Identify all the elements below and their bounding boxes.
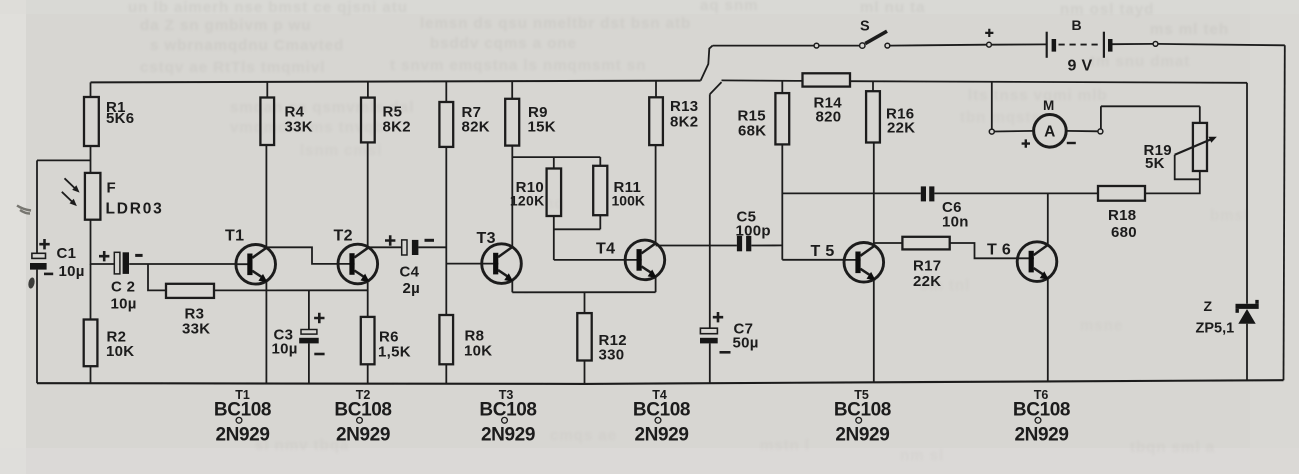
wire T2 collector to C4 bbox=[368, 246, 402, 248]
wire T1 collector to T2 base bbox=[266, 247, 338, 264]
svg-text:10µ: 10µ bbox=[272, 341, 298, 358]
wire T5 collector to R17 bbox=[874, 242, 903, 244]
svg-text:nm sl: nm sl bbox=[900, 447, 944, 464]
terminal battery minus bbox=[1153, 42, 1158, 47]
wire R13 top stub bbox=[655, 81, 657, 98]
svg-text:T4: T4 bbox=[596, 241, 615, 258]
wire T1 collector bbox=[265, 145, 267, 247]
transistor T5 bbox=[844, 242, 884, 282]
wire C3 to ground bbox=[308, 343, 310, 383]
wire R6 to ground bbox=[367, 364, 369, 383]
svg-text:BC108: BC108 bbox=[834, 400, 891, 421]
svg-text:ml nu ta: ml nu ta bbox=[860, 0, 926, 16]
capacitor C5 bbox=[737, 236, 742, 251]
svg-text:8K2: 8K2 bbox=[670, 114, 698, 131]
svg-text:2N929: 2N929 bbox=[1015, 425, 1069, 446]
resistor R14 bbox=[803, 73, 851, 86]
wire C7 to ground bbox=[709, 343, 711, 383]
battery dashed link bbox=[1059, 44, 1103, 46]
wire common emitter line T3 T4 bbox=[512, 291, 655, 293]
wire T5 collector bbox=[873, 143, 875, 246]
svg-text:2N929: 2N929 bbox=[216, 425, 270, 446]
svg-text:T3: T3 bbox=[477, 230, 496, 247]
wire T5 base to C6 bbox=[782, 192, 921, 194]
resistor R11 bbox=[593, 166, 607, 215]
wire R10 top stub bbox=[553, 157, 555, 168]
wire R1 to F bbox=[90, 146, 92, 173]
wire top rail right segment B bbox=[850, 81, 1247, 83]
wire ground rail bbox=[37, 380, 1284, 384]
wire R9 top stub bbox=[511, 81, 513, 99]
wire C5 to T5 base column bbox=[751, 244, 782, 246]
resistor R18 bbox=[1098, 186, 1145, 201]
resistor R3 bbox=[166, 284, 214, 298]
wire R10 bottom to T4 base bbox=[553, 216, 555, 260]
wire R15 bottom to T5 base bbox=[781, 144, 783, 259]
svg-text:tbqn sml a: tbqn sml a bbox=[1130, 439, 1215, 456]
wire right edge vertical bbox=[1284, 45, 1285, 380]
wire R18 to R19 bbox=[1145, 171, 1200, 193]
capacitor C1 bbox=[32, 253, 46, 258]
svg-text:msne: msne bbox=[1080, 317, 1123, 334]
svg-text:lemsn ds qsu nmeltbr dst bsn a: lemsn ds qsu nmeltbr dst bsn atb bbox=[420, 15, 691, 32]
svg-text:820: 820 bbox=[816, 109, 842, 126]
svg-text:C1: C1 bbox=[57, 245, 77, 262]
wire input node to C2 bbox=[91, 263, 115, 265]
svg-text:R17: R17 bbox=[913, 258, 941, 275]
svg-text:S: S bbox=[860, 19, 870, 35]
wire top supply rail left bbox=[91, 81, 701, 83]
svg-text:120K: 120K bbox=[510, 193, 545, 209]
zener diode Z bbox=[1236, 304, 1259, 309]
wire R11 top stub bbox=[599, 157, 601, 166]
wire switch to battery terminal bbox=[890, 44, 987, 47]
wire R12 stub bbox=[584, 292, 586, 313]
wire switch line left bbox=[713, 45, 815, 47]
wire zener to ground bbox=[1246, 324, 1248, 381]
wire T2 collector bbox=[367, 142, 369, 247]
wire C6 to R18 bbox=[934, 192, 1098, 194]
svg-text:10n: 10n bbox=[942, 214, 969, 231]
svg-text:680: 680 bbox=[1111, 224, 1137, 241]
wire R11 bottom stub bbox=[599, 215, 601, 229]
arrow 2 into F bbox=[62, 192, 74, 203]
wire to switch bbox=[819, 45, 860, 47]
svg-text:100p: 100p bbox=[736, 223, 771, 240]
capacitor C2 bbox=[114, 252, 120, 274]
wire T2 emitter to R6 bbox=[367, 281, 369, 317]
wire R4 top stub bbox=[266, 82, 268, 97]
svg-text:mstn l: mstn l bbox=[760, 437, 810, 454]
wire T4 collector bbox=[655, 145, 657, 243]
resistor R10 bbox=[547, 169, 562, 217]
wire R3 tap bbox=[148, 264, 166, 290]
svg-text:bmsl: bmsl bbox=[1210, 207, 1249, 224]
svg-text:BC108: BC108 bbox=[334, 400, 391, 421]
wire T3 base lead-in bbox=[446, 263, 482, 265]
resistor R16 bbox=[866, 91, 880, 142]
svg-text:BC108: BC108 bbox=[479, 400, 536, 421]
svg-text:C 2: C 2 bbox=[111, 279, 135, 296]
wire C7 column bbox=[709, 94, 711, 328]
wire R10 R11 top line bbox=[512, 156, 600, 158]
resistor R6 bbox=[361, 317, 375, 364]
wire R7 top stub bbox=[445, 81, 447, 102]
resistor R7 bbox=[439, 102, 453, 147]
switch S contact left bbox=[860, 43, 865, 48]
wire T3 emitter bbox=[511, 281, 513, 292]
wire feedback line R3 to T2 emitter bbox=[214, 289, 368, 291]
label T4 type bbox=[633, 388, 690, 446]
wire C2 to T1 base bbox=[129, 263, 236, 265]
svg-text:LDR03: LDR03 bbox=[106, 201, 164, 218]
svg-text:10K: 10K bbox=[464, 343, 492, 360]
svg-text:bsddv cqms a one: bsddv cqms a one bbox=[430, 35, 577, 52]
svg-text:aq snm: aq snm bbox=[700, 0, 759, 14]
svg-text:T 6: T 6 bbox=[987, 242, 1011, 259]
svg-text:T1: T1 bbox=[225, 228, 244, 245]
transistor T4 bbox=[625, 240, 665, 280]
svg-text:9 V: 9 V bbox=[1068, 58, 1093, 75]
svg-text:cmqs ae: cmqs ae bbox=[550, 427, 617, 444]
svg-text:F: F bbox=[107, 180, 116, 197]
label T2 type bbox=[334, 388, 391, 446]
wire R1 top stub bbox=[90, 82, 92, 97]
wire battery to terminal bbox=[1113, 43, 1154, 45]
transistor T2 bbox=[338, 244, 378, 284]
svg-text:B: B bbox=[1072, 17, 1082, 33]
label T3 type bbox=[479, 388, 536, 446]
svg-text:A: A bbox=[1044, 123, 1056, 140]
wire rail to meter bbox=[991, 81, 993, 129]
wire T4 base line bbox=[554, 259, 626, 261]
transistor T1 bbox=[236, 244, 276, 284]
wire top rail right segment A bbox=[722, 79, 803, 82]
svg-text:BC108: BC108 bbox=[1013, 400, 1070, 421]
wire R15 top stub bbox=[781, 81, 783, 93]
wire rail to zener bbox=[1246, 83, 1248, 304]
wire T6 emitter to ground bbox=[1047, 279, 1049, 382]
label T5 type bbox=[834, 388, 891, 446]
svg-text:R13: R13 bbox=[670, 98, 698, 115]
resistor R9 bbox=[505, 99, 519, 146]
svg-text:82K: 82K bbox=[462, 119, 490, 136]
svg-text:lsnm cmsl: lsnm cmsl bbox=[300, 142, 382, 159]
svg-text:8K2: 8K2 bbox=[383, 119, 411, 136]
svg-text:ZP5,1: ZP5,1 bbox=[1196, 321, 1235, 337]
svg-text:cstqv ae RtTls tmqmivl: cstqv ae RtTls tmqmivl bbox=[140, 59, 325, 76]
svg-text:T 5: T 5 bbox=[811, 243, 835, 260]
wire jog rail to C7 column bbox=[710, 82, 722, 94]
plus sign battery bbox=[985, 29, 993, 37]
svg-text:10µ: 10µ bbox=[111, 296, 137, 313]
wire left edge lower bbox=[36, 270, 38, 384]
wire terminal to battery bbox=[991, 43, 1046, 45]
battery B cell 1 bbox=[1046, 32, 1048, 58]
wire F to input node bbox=[90, 220, 92, 265]
resistor R8 bbox=[439, 315, 453, 364]
svg-text:2µ: 2µ bbox=[403, 280, 421, 297]
terminal meter left bbox=[989, 129, 994, 134]
resistor R4 bbox=[260, 98, 274, 146]
capacitor C7 bbox=[700, 328, 717, 334]
svg-text:ms ml teh: ms ml teh bbox=[1150, 21, 1229, 38]
transistor T6 bbox=[1017, 242, 1057, 282]
wire R12 to ground bbox=[584, 361, 586, 384]
wire T6 collector bbox=[1047, 193, 1049, 244]
svg-text:da Z sn gmbivm p wu: da Z sn gmbivm p wu bbox=[140, 17, 312, 34]
resistor R17 bbox=[902, 237, 949, 250]
wire T5 base line bbox=[782, 259, 844, 261]
photoresistor F LDR03 bbox=[85, 173, 101, 220]
svg-text:t snvm emqstna ls nmqmsmt sn: t snvm emqstna ls nmqmsmt sn bbox=[390, 57, 646, 74]
wire meter right lead bbox=[1067, 130, 1098, 132]
svg-text:s wbrnamqdnu Cmavted: s wbrnamqdnu Cmavted bbox=[150, 37, 344, 54]
svg-text:33K: 33K bbox=[285, 119, 313, 136]
resistor R13 bbox=[649, 97, 663, 145]
svg-text:68K: 68K bbox=[738, 123, 766, 140]
wire meter left lead bbox=[994, 130, 1033, 133]
svg-text:M: M bbox=[1043, 98, 1055, 113]
svg-text:BC108: BC108 bbox=[214, 400, 271, 421]
wire R10 R11 bottom link bbox=[554, 228, 601, 230]
svg-text:50µ: 50µ bbox=[733, 335, 759, 352]
wire node to R2 bbox=[90, 264, 92, 320]
svg-text:BC108: BC108 bbox=[633, 400, 690, 421]
svg-text:Z: Z bbox=[1204, 298, 1213, 314]
wire R2 to ground rail bbox=[90, 366, 92, 383]
svg-text:330: 330 bbox=[599, 347, 625, 364]
resistor R12 bbox=[577, 313, 591, 360]
wire C4 to T3 base column bbox=[418, 246, 446, 248]
wire T3 collector bbox=[511, 146, 513, 247]
wire R5 top stub bbox=[367, 82, 369, 98]
wire wiper tail bbox=[1175, 155, 1200, 180]
potentiometer R19 bbox=[1193, 123, 1207, 171]
terminal battery plus bbox=[987, 42, 992, 47]
svg-text:5K: 5K bbox=[1145, 155, 1165, 172]
resistor R15 bbox=[775, 93, 789, 144]
wire battery to right edge bbox=[1158, 44, 1285, 45]
wire T1 emitter to ground bbox=[265, 282, 267, 384]
meter plus minus bbox=[1022, 139, 1030, 147]
svg-text:nm osl tayd: nm osl tayd bbox=[1060, 1, 1154, 18]
svg-text:15K: 15K bbox=[528, 119, 556, 136]
resistor R1 bbox=[84, 97, 99, 146]
svg-text:T2: T2 bbox=[334, 228, 353, 245]
terminal meter right bbox=[1098, 129, 1103, 134]
capacitor C3 bbox=[301, 330, 317, 335]
wire T4 collector to C5 bbox=[656, 245, 737, 247]
meter M bbox=[1034, 115, 1067, 148]
resistor R2 bbox=[84, 320, 98, 367]
svg-text:tbn mqsts: tbn mqsts bbox=[960, 109, 1041, 126]
svg-text:10K: 10K bbox=[106, 343, 134, 360]
wire R17 to T6 base bbox=[950, 243, 1018, 258]
switch S arm bbox=[865, 31, 887, 43]
svg-text:2N929: 2N929 bbox=[481, 425, 535, 446]
wire T5 emitter to ground bbox=[873, 280, 875, 383]
svg-text:1,5K: 1,5K bbox=[378, 344, 411, 361]
wire meter right drop bbox=[1100, 106, 1102, 129]
svg-text:un lb aimerh nse bmst ce qjsni: un lb aimerh nse bmst ce qjsni atu bbox=[128, 0, 408, 16]
switch S contact right bbox=[885, 43, 890, 48]
svg-text:2N929: 2N929 bbox=[336, 425, 390, 446]
wire C3 tap bbox=[308, 290, 310, 329]
capacitor C6 bbox=[921, 186, 926, 201]
svg-text:2N929: 2N929 bbox=[835, 425, 889, 446]
wire jog rail to switch line bbox=[701, 46, 713, 81]
battery B cell 2 bbox=[1103, 32, 1105, 58]
wiper arrow R19 bbox=[1175, 140, 1211, 155]
svg-text:R18: R18 bbox=[1108, 207, 1136, 224]
svg-text:100K: 100K bbox=[612, 193, 645, 209]
svg-text:5K6: 5K6 bbox=[106, 110, 134, 127]
wire T4 emitter bbox=[655, 277, 657, 292]
svg-text:33K: 33K bbox=[182, 321, 210, 338]
label T1 type bbox=[214, 388, 271, 446]
wire left edge vertical bbox=[36, 160, 38, 253]
svg-text:tm snu dmat: tm snu dmat bbox=[1090, 53, 1190, 70]
svg-text:10µ: 10µ bbox=[59, 263, 85, 280]
svg-text:22K: 22K bbox=[887, 120, 915, 137]
ink smudge left margin bbox=[17, 206, 31, 214]
wire R7 to R8 column bbox=[445, 147, 447, 315]
resistor R5 bbox=[361, 98, 375, 143]
arrow 1 into F bbox=[65, 178, 77, 189]
wire meter to R19 top line bbox=[1101, 105, 1200, 107]
ink blob below C1 bbox=[27, 277, 35, 289]
label T6 type bbox=[1013, 388, 1070, 446]
wire R8 to ground bbox=[445, 364, 447, 383]
wire node to C1 bbox=[37, 159, 91, 161]
capacitor C4 bbox=[402, 240, 407, 255]
svg-text:C4: C4 bbox=[400, 264, 420, 281]
svg-text:2N929: 2N929 bbox=[635, 425, 689, 446]
svg-text:lts tnss vqmi mlb: lts tnss vqmi mlb bbox=[968, 87, 1108, 104]
terminal junction bbox=[814, 43, 819, 48]
wire R16 top stub bbox=[872, 81, 874, 91]
svg-text:22K: 22K bbox=[913, 273, 941, 290]
wire R19 top stub bbox=[1199, 106, 1201, 123]
transistor T3 bbox=[482, 244, 522, 284]
